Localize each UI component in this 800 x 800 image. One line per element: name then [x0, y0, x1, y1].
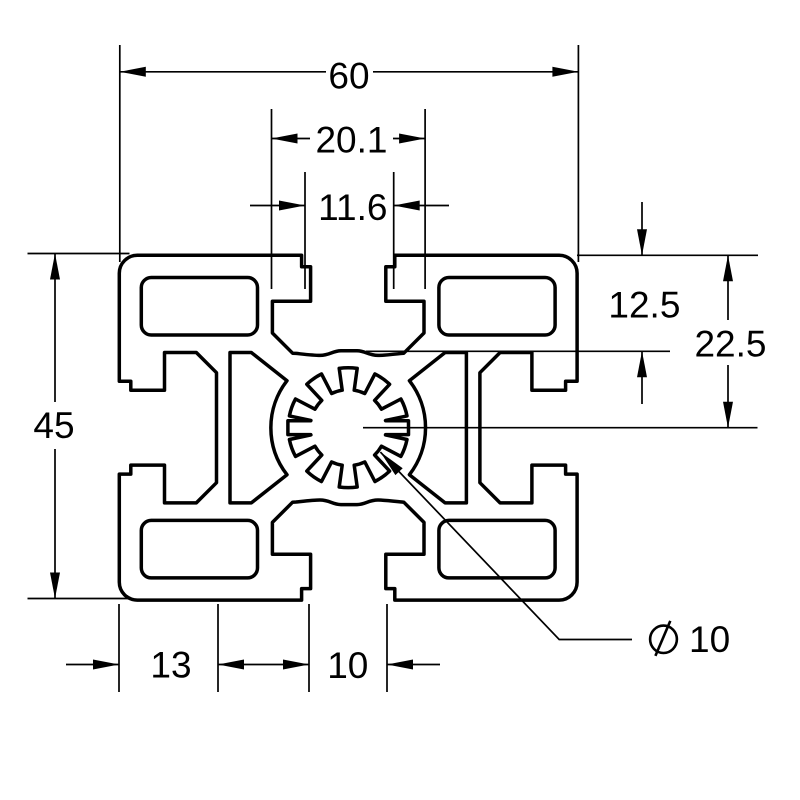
dimension 12.5: extension lines [366, 255, 758, 351]
dimension 20.1: extension lines [272, 109, 426, 289]
dimension 13: left outside arrowhead [93, 660, 119, 670]
dimensions 13 and 10: extension lines [119, 604, 387, 692]
svg-text:10: 10 [327, 645, 368, 686]
profile outer outline with four T-slots [119, 255, 577, 600]
central splined bore [288, 368, 409, 488]
svg-text:45: 45 [33, 405, 74, 446]
svg-text:13: 13 [150, 645, 191, 686]
dimension 45: top arrowhead [50, 254, 60, 280]
dimension 45: bottom arrowhead [50, 573, 60, 599]
dimension 22.5: top arrowhead [723, 255, 733, 281]
leader arrowhead at bore [380, 452, 402, 475]
dimension 60: extension lines [120, 45, 579, 262]
dimension 22.5: dimension line [727, 255, 729, 427]
dimension 20.1: right arrowhead [399, 134, 425, 144]
left web cavity [230, 353, 287, 503]
dimension 60: dimension line [120, 71, 579, 73]
corner chamber bottom-left [141, 520, 257, 578]
corner chamber top-left [141, 278, 257, 336]
dimension 60: left arrowhead [120, 67, 146, 77]
dimension 20.1: left arrowhead [272, 134, 298, 144]
dimension 12.5: top arrowhead [637, 229, 647, 255]
diameter symbol [650, 626, 677, 653]
bore centre line [363, 427, 758, 429]
dimension 45: dimension line [54, 254, 56, 599]
dimension 11.6: outside arrows [250, 205, 449, 207]
corner chamber bottom-right [439, 520, 555, 578]
dimension 11.6: extension lines [305, 172, 394, 289]
svg-text:10: 10 [689, 619, 730, 660]
right web cavity [409, 353, 466, 503]
dimension 20.1: dimension line [272, 138, 426, 140]
dimension 10: right outside arrowhead [387, 660, 413, 670]
dimension 11.6: left arrowhead [279, 201, 305, 211]
dimension 45: extension lines [28, 254, 130, 599]
double arrow: left head [218, 660, 244, 670]
svg-text:11.6: 11.6 [318, 187, 387, 228]
dimension 22.5: bottom arrowhead [723, 402, 733, 428]
dimension 12.5: bottom arrowhead [637, 351, 647, 377]
double arrow: right head [283, 660, 309, 670]
dimension 11.6: right arrowhead [394, 201, 420, 211]
svg-text:20.1: 20.1 [315, 120, 387, 161]
double-headed arrow between 13 and 10 [218, 664, 309, 666]
svg-text:22.5: 22.5 [694, 324, 766, 365]
svg-text:12.5: 12.5 [608, 285, 680, 326]
corner chamber top-right [439, 278, 555, 336]
svg-text:60: 60 [328, 56, 369, 97]
dimension 60: right arrowhead [552, 67, 578, 77]
dimension 12.5: outside arrows [641, 202, 643, 404]
leader line to bore [380, 452, 632, 639]
dimension 10: outside arrow right [387, 664, 440, 666]
dimension 13: outside arrow left [66, 664, 119, 666]
